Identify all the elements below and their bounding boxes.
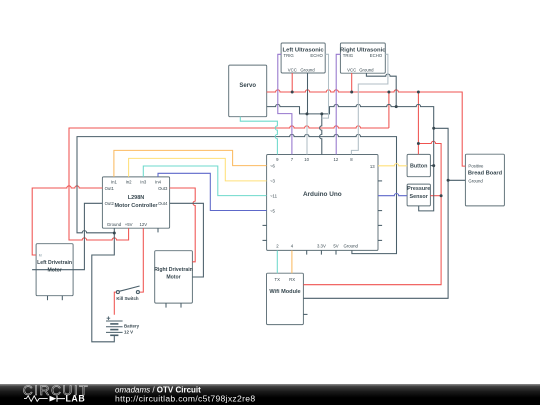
- svg-text:In4: In4: [155, 179, 162, 184]
- wire breadboard ground stub: [448, 179, 465, 181]
- kill switch SW1: [116, 286, 139, 294]
- junction node: [417, 91, 420, 94]
- svg-text:TX: TX: [275, 277, 281, 282]
- svg-text:Ground: Ground: [344, 244, 359, 249]
- pressure sensor U6: [407, 184, 430, 206]
- pin stub arduino bottom: [306, 250, 308, 254]
- wire right-ultrasonic ground: [366, 73, 396, 107]
- svg-text:12V: 12V: [139, 222, 147, 227]
- wire In2: [129, 158, 267, 181]
- svg-text:~11: ~11: [270, 193, 278, 198]
- svg-text:3.3V: 3.3V: [317, 244, 326, 249]
- pin stub right motor 2: [180, 303, 182, 308]
- svg-text:Positive: Positive: [468, 163, 484, 168]
- svg-text:VCC: VCC: [288, 67, 297, 72]
- svg-text:Kill Switch: Kill Switch: [116, 296, 139, 301]
- right drivetrain motor M2: [155, 251, 193, 303]
- wire In3: [143, 166, 266, 196]
- junction node: [447, 179, 450, 182]
- svg-text:Out3: Out3: [158, 186, 168, 191]
- svg-text:VCC: VCC: [347, 67, 356, 72]
- svg-text:RX: RX: [289, 277, 295, 282]
- svg-text:+5V: +5V: [125, 222, 133, 227]
- junction node: [320, 112, 323, 115]
- svg-text:Button: Button: [410, 164, 427, 170]
- L298N motor controller U3: [102, 177, 169, 228]
- junction node: [395, 105, 398, 108]
- pin stub right motor 1: [165, 303, 167, 308]
- svg-text:Servo: Servo: [239, 83, 256, 89]
- wire servo signal to pin 9: [240, 117, 277, 155]
- svg-text:L298N: L298N: [128, 195, 145, 201]
- svg-text:12 V: 12 V: [124, 330, 133, 335]
- svg-text:LAB: LAB: [66, 394, 86, 404]
- pin stub left motor 1: [47, 296, 49, 301]
- svg-text:Left Drivetrain: Left Drivetrain: [37, 260, 72, 266]
- wire Out4 to right motor: [170, 203, 204, 277]
- pin stub left motor 2: [61, 296, 63, 301]
- wire button VCC drop: [417, 92, 419, 154]
- svg-text:http://circuitlab.com/c5t798jx: http://circuitlab.com/c5t798jxz2re8: [115, 394, 255, 404]
- wifi module U8: [267, 273, 304, 324]
- wire 12V to kill switch: [140, 228, 144, 292]
- wire Out1 to left motor: [32, 186, 102, 255]
- wire button to pressure-sensor: [303, 141, 441, 284]
- svg-text:In1: In1: [111, 179, 118, 184]
- svg-text:5V: 5V: [333, 244, 338, 249]
- junction node: [432, 164, 435, 167]
- svg-text:Motor Controller: Motor Controller: [114, 203, 158, 209]
- wire pressure-sensor right stub: [430, 195, 441, 197]
- pin stub arduino left: [263, 224, 267, 226]
- right ultrasonic U2: [340, 43, 385, 73]
- svg-text:Out1: Out1: [105, 186, 115, 191]
- svg-text:Bread Board: Bread Board: [468, 171, 503, 177]
- wire trig left-ultrasonic to pin 7: [278, 54, 292, 154]
- svg-text:ECHO: ECHO: [310, 53, 323, 58]
- servo U5: [229, 65, 267, 117]
- svg-text:10: 10: [304, 157, 309, 162]
- junction node: [350, 91, 353, 94]
- arduino uno U4: [267, 155, 378, 251]
- wire VCC bus: [267, 90, 466, 166]
- wire echo left-ultrasonic: [322, 54, 329, 118]
- pin stub arduino right 3: [378, 224, 382, 226]
- wire Out3 to right motor: [170, 188, 196, 262]
- pin stub arduino 5V: [335, 250, 337, 254]
- pin stub arduino right 4: [378, 239, 382, 241]
- svg-text:In3: In3: [140, 179, 147, 184]
- circuitlab logo: [23, 384, 89, 405]
- svg-text:13: 13: [370, 164, 375, 169]
- button SW2: [407, 154, 430, 176]
- pin stub arduino 3.3V: [320, 250, 322, 254]
- pin stub arduino right: [378, 180, 382, 182]
- svg-text:Right Drivetrain: Right Drivetrain: [154, 267, 193, 273]
- junction node: [417, 142, 420, 145]
- svg-text:Ground: Ground: [468, 178, 483, 183]
- junction node: [306, 112, 309, 115]
- svg-text:Wifi Module: Wifi Module: [269, 289, 300, 295]
- svg-text:M: M: [39, 253, 42, 257]
- battery V1 12V: [106, 316, 123, 335]
- wire ground to wifi: [303, 128, 448, 298]
- wire Out2 to left motor: [32, 203, 102, 269]
- svg-text:TRIG: TRIG: [343, 53, 354, 58]
- wire VCC left-ultrasonic: [291, 73, 293, 92]
- svg-text:Battery: Battery: [124, 324, 140, 329]
- svg-text:Ground: Ground: [107, 222, 122, 227]
- svg-text:~5: ~5: [270, 208, 276, 213]
- pin stub arduino left 2: [263, 239, 267, 241]
- junction node: [387, 91, 390, 94]
- pin stub wifi right: [303, 313, 307, 315]
- wire ground pin stub L298N: [113, 228, 115, 233]
- pin stub L298N bottom: [157, 228, 159, 232]
- svg-text:Motor: Motor: [47, 267, 61, 273]
- wire wifi TX to pin 2: [276, 250, 278, 273]
- wire wifi RX to pin 4: [291, 250, 293, 273]
- svg-text:Out2: Out2: [105, 201, 115, 206]
- wire dark drop to arduino pin: [320, 114, 322, 155]
- svg-text:12: 12: [334, 157, 339, 162]
- junction node: [291, 91, 294, 94]
- pin stub arduino right 2: [378, 210, 382, 212]
- left drivetrain motor M1: [36, 244, 73, 296]
- wire left-ultrasonic ground: [307, 73, 309, 114]
- junction node: [440, 194, 443, 197]
- svg-text:Out4: Out4: [158, 201, 168, 206]
- svg-text:Sensor: Sensor: [410, 194, 429, 200]
- wire ground to pressure bottom: [419, 128, 434, 211]
- svg-text:Motor: Motor: [166, 274, 180, 280]
- wire button right stub: [430, 165, 433, 167]
- wire VCC drop to 5V rail: [388, 92, 390, 128]
- wire kill switch to battery: [114, 292, 116, 315]
- wire In1: [114, 150, 267, 177]
- svg-text:~6: ~6: [270, 163, 276, 168]
- wire 5V rail: [69, 126, 389, 240]
- svg-text:In2: In2: [126, 179, 133, 184]
- wire pin 11 blue to pressure: [378, 193, 407, 195]
- wire L298N ground chain: [77, 134, 397, 253]
- svg-text:Arduino Uno: Arduino Uno: [303, 191, 342, 198]
- wire ground bus: [267, 104, 434, 128]
- svg-text:TRIG: TRIG: [284, 53, 295, 58]
- wire trig right-ultrasonic to pin 12: [336, 54, 340, 154]
- wire to arduino pin 10: [306, 114, 308, 155]
- svg-text:ECHO: ECHO: [370, 53, 383, 58]
- svg-text:Ground: Ground: [359, 67, 374, 72]
- svg-text:Pressure: Pressure: [407, 186, 430, 192]
- wire echo right-ultrasonic to pin 8: [351, 54, 388, 154]
- left ultrasonic U1: [281, 43, 325, 73]
- wire ground to battery: [92, 233, 115, 342]
- junction node: [432, 127, 435, 130]
- svg-text:~3: ~3: [270, 179, 276, 184]
- bread board U7: [465, 154, 504, 206]
- wire In4: [158, 173, 267, 210]
- junction node: [113, 232, 116, 235]
- wire pin 13 to button: [378, 164, 407, 166]
- svg-text:Ground: Ground: [300, 67, 315, 72]
- wire VCC right-ultrasonic: [351, 73, 353, 92]
